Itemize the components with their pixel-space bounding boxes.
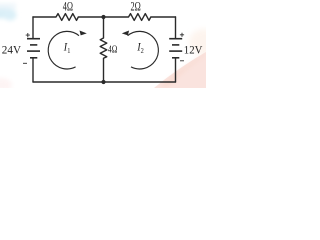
svg-text:24V: 24V — [2, 43, 22, 56]
svg-text:12V: 12V — [184, 44, 203, 57]
svg-text:2Ω: 2Ω — [131, 1, 142, 14]
svg-text:4Ω: 4Ω — [63, 1, 74, 14]
svg-text:4Ω: 4Ω — [108, 44, 117, 56]
